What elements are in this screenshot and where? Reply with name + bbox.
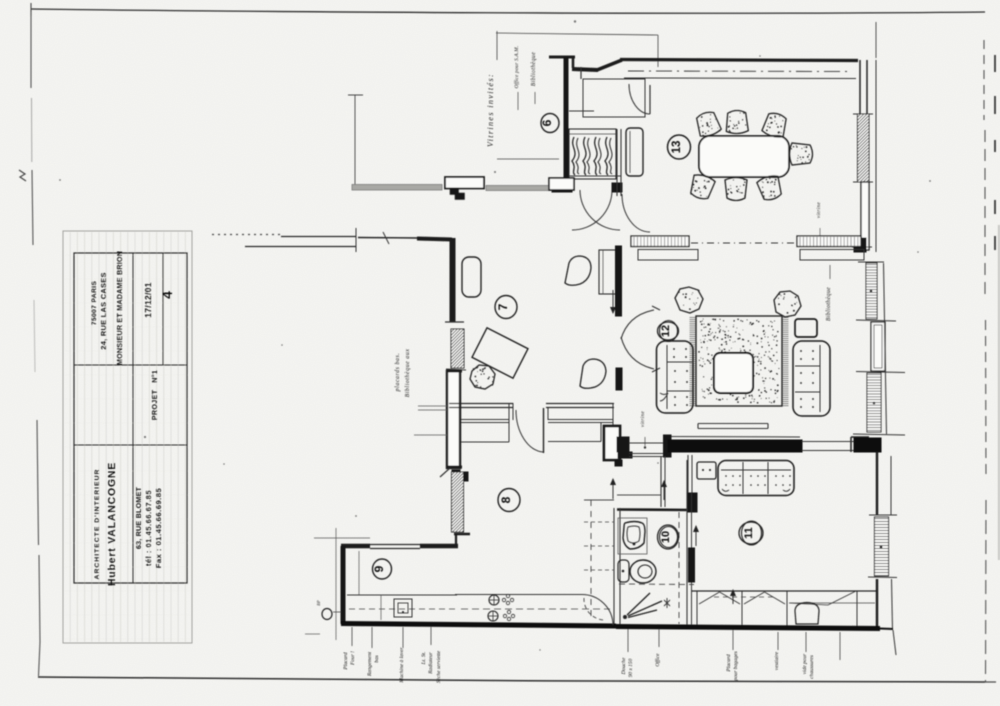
svg-text:pour bagages: pour bagages xyxy=(733,651,739,682)
black wall blocks below west wall xyxy=(452,470,460,480)
bathroom door leaf black xyxy=(689,548,695,582)
svg-text:4: 4 xyxy=(159,291,175,299)
svg-text:90 x 150: 90 x 150 xyxy=(628,658,634,677)
svg-text:7: 7 xyxy=(496,303,510,310)
wall niche corner below bookshelf xyxy=(851,436,869,438)
dining chair top-left xyxy=(694,110,722,139)
room 9 interior counter xyxy=(358,551,360,595)
closet bottom edge note xyxy=(569,175,621,177)
svg-text:8: 8 xyxy=(499,496,513,503)
dimension line top-left vertical xyxy=(354,95,356,186)
wall room7-room8 right part xyxy=(546,403,614,405)
svg-text:17/12/01: 17/12/01 xyxy=(143,282,153,318)
door room 13 lower-left arc xyxy=(622,194,650,232)
entry gray wall segment xyxy=(486,186,552,191)
wall block below door room 12 left xyxy=(616,368,622,390)
window line west xyxy=(358,237,417,240)
thick wall rooms 10-11 top xyxy=(668,440,802,452)
leader lines bottom right xyxy=(627,629,629,652)
page border left (dashed) xyxy=(30,12,32,88)
kitchen hob symbol 1 xyxy=(506,594,509,597)
title block divider vertical xyxy=(132,253,134,583)
svg-text:vide pour: vide pour xyxy=(802,653,808,674)
left border scribble mark xyxy=(19,170,26,181)
east wall room 11 lower xyxy=(876,579,878,630)
wall tick y322 xyxy=(445,321,464,323)
wall corner block at corridor xyxy=(664,435,672,457)
svg-text:24, RUE LAS CASES: 24, RUE LAS CASES xyxy=(99,272,108,349)
extension line above top-right corner xyxy=(875,22,877,58)
dining chair bottom-middle xyxy=(725,178,747,201)
svg-text:bas: bas xyxy=(374,655,380,663)
svg-text:Bibliothèque: Bibliothèque xyxy=(826,287,832,321)
right wall outer face line xyxy=(884,263,887,434)
svg-text:13: 13 xyxy=(671,141,683,154)
svg-text:Fax : 01.45.66.69.85: Fax : 01.45.66.69.85 xyxy=(154,487,163,568)
desk room 7 xyxy=(472,328,528,378)
wall room 12 left upper (black) xyxy=(616,246,622,316)
radiator room 7 west xyxy=(451,329,464,368)
right margin dark dashes xyxy=(994,55,996,72)
svg-text:vitrine: vitrine xyxy=(816,202,822,218)
svg-text:10: 10 xyxy=(660,531,672,543)
corridor opening lines xyxy=(629,442,666,444)
svg-text:PROJET N°1: PROJET N°1 xyxy=(150,370,159,420)
room label 11 circle xyxy=(739,522,763,544)
svg-text:Radiateur: Radiateur xyxy=(428,651,434,674)
bathroom left wall xyxy=(613,508,615,626)
svg-text:Placard: Placard xyxy=(343,652,349,670)
bathroom top-right black corner xyxy=(688,493,697,512)
vestibule right wall lower xyxy=(616,129,618,196)
plant blob left room 12 xyxy=(675,287,703,313)
svg-text:Sèche serviette: Sèche serviette xyxy=(436,650,442,683)
title block divider date cell xyxy=(162,253,164,365)
stool blob top room 7 xyxy=(565,256,591,285)
bathroom dashed line horizontal xyxy=(619,583,694,586)
dining chair right-end xyxy=(790,143,813,165)
kitchen west wall jog xyxy=(454,533,470,536)
dashed door arc bottom-left of bathroom strip xyxy=(584,598,606,620)
svg-text:Rangement: Rangement xyxy=(367,651,373,677)
east wall room 11 upper xyxy=(876,452,878,515)
right edge gray sliver xyxy=(998,225,1000,560)
door hinge black marks xyxy=(450,188,459,195)
room 9 top wall xyxy=(341,544,370,549)
room 9 appliance xyxy=(394,599,412,617)
closet hanging symbols xyxy=(699,592,720,604)
svg-text:Vitrines invités:: Vitrines invités: xyxy=(486,73,495,147)
svg-text:ARCHITECTE D'INTERIEUR: ARCHITECTE D'INTERIEUR xyxy=(94,469,101,580)
svg-text:Office pour S.A.M.: Office pour S.A.M. xyxy=(513,46,520,89)
BP circle outside xyxy=(322,609,332,620)
svg-text:Office: Office xyxy=(654,653,661,667)
svg-text:placards bas.: placards bas. xyxy=(395,353,401,393)
leader lines bottom left xyxy=(351,627,353,646)
dining chair top-right xyxy=(761,111,788,139)
pouf stippled room 7 xyxy=(470,365,495,389)
gray wall west segment xyxy=(352,185,442,191)
sofa right room 12 xyxy=(793,341,830,416)
entry double door arcs xyxy=(572,190,612,230)
room label 6 circle xyxy=(541,114,559,133)
title block ruling lines xyxy=(64,232,191,642)
dining table xyxy=(699,136,789,177)
svg-text:Bibliothèque: Bibliothèque xyxy=(531,52,537,86)
shower spray lines xyxy=(623,615,627,619)
svg-text:12: 12 xyxy=(660,325,672,337)
bathroom wc xyxy=(618,560,629,582)
sofa room 11 xyxy=(718,461,794,496)
bookshelf strip lower right wall xyxy=(867,373,881,432)
coffee table room 12 xyxy=(714,353,753,393)
dining chair bottom-left xyxy=(688,173,716,201)
room label 8 circle xyxy=(498,489,520,512)
kitchen top cabinets left xyxy=(461,419,509,421)
shelf against room 12 wall xyxy=(599,250,616,294)
svg-text:BP: BP xyxy=(316,600,321,606)
room label 7 circle xyxy=(495,296,517,319)
wall tick at x356 xyxy=(355,228,357,252)
wall corner northwest of room 7 xyxy=(417,239,452,240)
closet hanger squiggles xyxy=(572,137,612,175)
closet band room 11 xyxy=(692,590,876,592)
closet dashed rod line xyxy=(714,596,776,598)
svg-text:75007 PARIS: 75007 PARIS xyxy=(91,281,98,326)
bathroom top thin line xyxy=(617,494,661,496)
bathroom top wall xyxy=(617,508,695,511)
scan specks xyxy=(144,436,146,438)
extension lines left of room 9 xyxy=(314,537,370,539)
wall room 13 right upper xyxy=(859,60,861,114)
room 9 left wall xyxy=(341,546,346,624)
door jamb black bar xyxy=(618,452,632,458)
wall room 13 top xyxy=(620,60,858,61)
room label 12 circle xyxy=(658,322,679,340)
wall room 13 outer face line xyxy=(875,60,877,252)
room label 9 circle xyxy=(373,559,392,579)
armchair room 7 xyxy=(462,257,481,297)
room label 13 circle xyxy=(668,135,691,159)
nook wall lines xyxy=(687,455,689,493)
svg-text:vestiaire: vestiaire xyxy=(774,651,780,670)
down arrow along room 12 wall xyxy=(612,290,614,310)
svg-text:Placard: Placard xyxy=(726,654,732,672)
wall west double-line lower xyxy=(447,371,460,468)
room label 10 circle xyxy=(658,525,679,549)
svg-text:63, RUE BLOMET: 63, RUE BLOMET xyxy=(134,486,143,549)
bathroom right wall xyxy=(686,460,688,626)
sofa left room 12 xyxy=(657,341,694,413)
dash-dot line between vitrines xyxy=(691,242,796,244)
shower asterisk mark xyxy=(664,600,670,606)
door jamb black block xyxy=(617,437,629,452)
wall room 13 right lower xyxy=(861,182,869,250)
closet room 6 box xyxy=(569,129,616,179)
door room 6 top leaf and arc xyxy=(649,85,651,114)
wall vestibule left vertical xyxy=(564,57,569,186)
radiator kitchen west wall xyxy=(452,472,464,532)
side table room 12 top-right xyxy=(795,319,817,337)
kitchen counter bottom xyxy=(455,594,582,596)
kitchen sink symbol 1 xyxy=(489,595,499,605)
svg-text:Hubert VALANCOGNE: Hubert VALANCOGNE xyxy=(106,462,118,586)
plant blob right room 12 xyxy=(774,291,801,317)
wall room7-room8 left part xyxy=(449,403,513,405)
vitrine cabinet left xyxy=(631,236,689,247)
title block inner table xyxy=(74,253,187,583)
svg-text:MONSIEUR ET MADAME BRION: MONSIEUR ET MADAME BRION xyxy=(115,251,124,365)
svg-text:Lt. St.: Lt. St. xyxy=(421,652,427,666)
kitchen door leaf and arc xyxy=(543,408,545,453)
svg-text:Four !: Four ! xyxy=(350,651,356,666)
dining chair top-middle xyxy=(726,110,749,134)
window element left of entry xyxy=(445,177,484,189)
bathroom sink xyxy=(618,518,647,554)
radiator east wall room 11 xyxy=(875,517,889,576)
svg-text:chaussures: chaussures xyxy=(809,655,815,679)
svg-text:Machine à laver: Machine à laver xyxy=(399,646,405,683)
console room 13 left wall xyxy=(626,128,643,176)
svg-text:11: 11 xyxy=(743,527,755,539)
stool blob middle room 7 xyxy=(580,359,606,388)
corridor arrows xyxy=(612,481,614,499)
wall block right of entry doors xyxy=(612,183,622,192)
opening between rooms 12 and 11 xyxy=(802,441,856,443)
wall top-left step xyxy=(549,56,575,59)
kitchen sink symbol 2 xyxy=(488,611,498,621)
title block outer frame xyxy=(63,231,192,643)
page border bottom xyxy=(38,677,985,682)
svg-text:tél : 01.45.66.67.85: tél : 01.45.66.67.85 xyxy=(144,490,153,567)
wall block left of entry doors xyxy=(552,183,572,192)
side table room 11 xyxy=(697,462,716,479)
leader line vitrines invites xyxy=(496,31,498,60)
svg-text:vitrine: vitrine xyxy=(640,411,646,427)
thick wall block east end xyxy=(854,438,881,452)
closet arrow xyxy=(732,592,734,604)
leader lines to west wall xyxy=(418,405,447,407)
title block divider horizontal 1 xyxy=(74,364,187,366)
console behind sofa room 12 bottom xyxy=(698,423,768,425)
wall west double top xyxy=(281,236,356,238)
page border right (dashed) xyxy=(983,40,985,120)
vitrine cabinet right xyxy=(797,236,861,247)
kitchen top cabinets right xyxy=(548,419,613,421)
bookshelf strip upper right wall xyxy=(866,263,877,319)
bathroom dashed divider vertical xyxy=(678,512,680,624)
page border top xyxy=(31,9,985,13)
dotted wall line far left xyxy=(212,234,281,236)
door jamb white rectangle xyxy=(604,426,620,460)
corner tick room13 SE xyxy=(852,246,872,248)
svg-text:9: 9 xyxy=(372,565,386,572)
rug fringe xyxy=(690,318,789,406)
rug stippled room 12 xyxy=(696,316,782,406)
closet basket room 11 xyxy=(795,603,819,625)
svg-text:Douche: Douche xyxy=(621,657,627,675)
window right wall middle xyxy=(856,320,896,321)
window sill right of gray wall xyxy=(549,178,574,190)
vestibule inner partition xyxy=(583,79,645,117)
dining chair bottom-right xyxy=(756,174,784,202)
main bottom wall xyxy=(341,624,616,627)
corridor right wall lines xyxy=(660,456,662,507)
corridor dashed tile strip xyxy=(590,500,592,620)
svg-text:Bibliothèque aux: Bibliothèque aux xyxy=(405,349,411,398)
kitchen hob symbol 2 xyxy=(507,610,510,613)
svg-text:6: 6 xyxy=(540,119,554,126)
radiator room 13 right xyxy=(853,113,873,115)
double door arcs rooms 7-12 xyxy=(621,310,654,339)
title block divider horizontal 2 xyxy=(74,444,187,446)
